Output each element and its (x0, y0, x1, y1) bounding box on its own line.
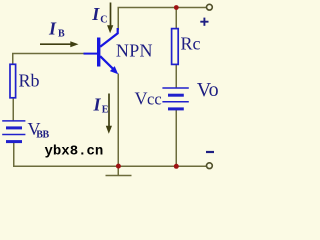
node junction dot bottom rail at Vcc (174, 164, 179, 169)
wire emitter to bottom rail (117, 74, 119, 167)
svg-text:V: V (135, 89, 148, 109)
svg-text:Rb: Rb (19, 71, 40, 91)
transistor Q1 collector lead (100, 28, 118, 47)
battery VBB plate long top (2, 120, 25, 122)
wire Rb bottom to VBB battery top (12, 98, 14, 122)
svg-text:Rc: Rc (181, 34, 201, 54)
battery Vcc plate long lower (162, 101, 188, 103)
svg-text:I: I (91, 4, 100, 24)
ground (117, 166, 119, 175)
wire base lead from Rb top corner to transistor base (13, 54, 85, 65)
node junction dot top rail at Rc (174, 5, 179, 10)
node junction dot bottom rail at emitter (116, 164, 121, 169)
svg-text:Vo: Vo (197, 79, 219, 101)
current arrow IC (110, 3, 112, 27)
battery Vcc plate long top (162, 87, 188, 89)
svg-text:ybx8.cn: ybx8.cn (45, 144, 104, 160)
resistor Rc (172, 29, 179, 65)
svg-text:cc: cc (147, 90, 162, 109)
battery VBB plate short thick (6, 126, 22, 129)
svg-text:E: E (102, 105, 109, 116)
battery VBB plate short thick bottom (6, 140, 22, 143)
svg-text:I: I (48, 19, 57, 39)
battery Vcc plate short thick bottom (168, 107, 184, 110)
battery VBB plate long lower (2, 134, 25, 136)
wire VBB battery bottom to bottom rail corner (14, 142, 207, 166)
transistor Q1 emitter lead with arrow (100, 56, 113, 69)
wire Rc bottom to Vcc battery top (175, 64, 177, 88)
transistor Q1 base lead (84, 53, 99, 55)
current arrow IE (108, 94, 110, 128)
svg-text:C: C (100, 14, 107, 25)
wire top rail collector to output terminal (118, 8, 206, 31)
label minus terminal (206, 151, 214, 153)
resistor Rb (10, 64, 16, 98)
svg-text:B: B (58, 29, 65, 40)
svg-text:NPN: NPN (116, 41, 153, 61)
wire Vcc battery bottom to bottom rail (175, 109, 177, 167)
label plus terminal (200, 21, 208, 23)
battery Vcc plate short thick (168, 94, 184, 97)
current arrow IB (40, 43, 71, 45)
svg-text:I: I (93, 95, 102, 115)
output terminal bottom (207, 163, 213, 169)
transistor Q1 base bar (97, 38, 100, 67)
output terminal top (207, 4, 213, 10)
svg-text:BB: BB (36, 129, 49, 140)
wire Rc branch from top rail to Rc top (175, 8, 177, 30)
